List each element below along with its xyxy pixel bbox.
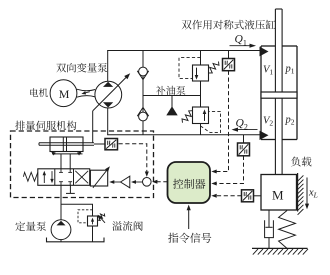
- wire supply from fixed pump: [60, 185, 62, 220]
- controller output dashed to summing junction: [157, 181, 168, 183]
- relief valve RV2 body: [193, 107, 209, 124]
- pump P1 top flow triangle: [103, 82, 113, 87]
- damper piston: [265, 226, 272, 228]
- flow arrow Q2 (leftward): [236, 129, 258, 131]
- summing junction circle: [143, 178, 152, 187]
- pressure sensor PS2 stub: [243, 135, 245, 143]
- wire tank return stub: [69, 185, 71, 193]
- wire pump bottom riser: [107, 108, 109, 135]
- mechanical linkage to pump swashplate: [92, 111, 94, 143]
- guide wall with hatching: [297, 173, 299, 212]
- load spring: [279, 211, 296, 249]
- relief valve RV3 to tank: [92, 226, 94, 242]
- check valve CV2 (lower): [139, 112, 148, 121]
- displacement feedback dashed line: [119, 144, 147, 173]
- fixed pump P2 circle: [51, 220, 71, 240]
- label 溢流阀: [112, 221, 143, 231]
- relief valve RV3 adjustment arrow: [100, 217, 105, 223]
- relief valve RV3 pilot line: [78, 210, 93, 223]
- wire summing junction to amplifier: [136, 181, 143, 183]
- relief valve RV1 body: [193, 65, 209, 81]
- wire cross-port relief branch line: [200, 51, 202, 135]
- servo valve spring: [23, 172, 37, 181]
- wire valve port A stem: [60, 154, 62, 169]
- position sensor PS3 link to load: [254, 195, 262, 197]
- wire pump top riser: [107, 51, 109, 82]
- piston rod: [275, 9, 282, 175]
- motor M1 circle: [50, 80, 77, 107]
- flow arrow Q1 (rightward): [230, 45, 253, 47]
- fixed pump P2 triangle: [57, 221, 66, 226]
- Q1 port arrow into cylinder: [260, 47, 269, 57]
- relief valve RV3 body: [88, 216, 98, 226]
- relief valve RV1 pilot line: [179, 58, 201, 79]
- PS2 feedback dashed line: [216, 156, 244, 184]
- PS1 feedback dashed line: [216, 71, 229, 172]
- label 定量泵: [15, 221, 46, 231]
- damper cup: [265, 220, 274, 237]
- servo actuator body: [50, 137, 83, 152]
- servo valve V1 body: [38, 169, 90, 186]
- svg-text:M: M: [272, 187, 284, 202]
- pressure sensor PS1 (p1): [223, 59, 235, 71]
- command signal arrow: [188, 209, 190, 229]
- servo actuator rod: [39, 142, 94, 144]
- wire amplifier to solenoid: [114, 181, 121, 183]
- relief valve RV3 spring: [98, 213, 105, 220]
- PS3 feedback dashed line: [216, 195, 242, 197]
- pressure sensor PS2 (p2): [238, 143, 250, 156]
- svg-text:M: M: [59, 87, 70, 101]
- servo actuator piston: [62, 137, 64, 152]
- label 补油泵: [156, 86, 185, 95]
- wire Q2 return line (cylinder to pump): [107, 134, 260, 136]
- relief valve RV3 internal arrow: [92, 220, 94, 225]
- shaft between motor and pump: [77, 89, 96, 91]
- amplifier triangle: [121, 176, 130, 188]
- servo valve left position arrows: [43, 173, 45, 183]
- link rod to displacement sensor: [94, 143, 105, 145]
- servo valve proportional solenoid: [90, 170, 107, 186]
- cylinder body walls: [260, 46, 262, 140]
- feed arrow into left chamber: [54, 152, 56, 155]
- label 双向变量泵: [56, 63, 107, 73]
- Q2 port arrow into cylinder: [260, 131, 269, 140]
- servo valve right position crossed arrows: [75, 171, 88, 184]
- ground line with hatching: [252, 247, 308, 249]
- shaft rotation arrow: [84, 92, 90, 94]
- label 指令信号: [168, 233, 211, 243]
- label 控制器: [173, 179, 205, 189]
- wire actuator feed bar: [52, 153, 83, 155]
- pressure sensor PS1 stub: [228, 51, 230, 59]
- wire check-valve branch line: [142, 51, 144, 135]
- relief valve RV1 spring: [209, 62, 219, 74]
- wire branch to relief valve RV3: [61, 204, 93, 216]
- check valve CV1 (upper): [139, 67, 148, 76]
- displacement arrow xL: [306, 178, 308, 205]
- controller box 控制器: [168, 162, 211, 203]
- dashed box 排量伺服机构: [11, 131, 154, 198]
- servo valve centre blocked ports: [60, 169, 62, 173]
- label title 双作用对称式液压缸: [182, 20, 276, 30]
- wire Q1 supply line (pump to cylinder): [107, 50, 260, 52]
- relief valve RV2 internal arrow: [204, 112, 206, 121]
- wire charge (make-up) line: [143, 95, 201, 97]
- relief valve RV1 internal arrow: [196, 68, 198, 77]
- position sensor PS3 (xL): [242, 190, 254, 202]
- pump P1 circle (bidirectional variable pump): [95, 81, 122, 108]
- label 负载: [291, 157, 311, 167]
- feed arrow into right chamber: [79, 152, 81, 155]
- relief valve RV2 pilot line: [201, 111, 221, 132]
- wire valve port B stem: [69, 154, 71, 169]
- pump P1 bottom flow triangle: [103, 102, 113, 107]
- pump P1 variable-displacement arrow: [93, 77, 127, 111]
- tank T1: [47, 238, 105, 242]
- piston: [261, 92, 297, 98]
- relief valve RV2 spring: [182, 111, 192, 123]
- charge pump triangle: [166, 106, 177, 115]
- label 电机: [30, 88, 48, 97]
- fixed pump to tank stub: [60, 240, 62, 242]
- damper rod: [268, 210, 270, 227]
- damper to ground rod: [268, 238, 270, 249]
- mass block M: [261, 175, 297, 211]
- charge pump stub: [171, 96, 173, 108]
- label 排量伺服机构: [15, 121, 76, 131]
- displacement sensor (swashplate position): [105, 139, 118, 150]
